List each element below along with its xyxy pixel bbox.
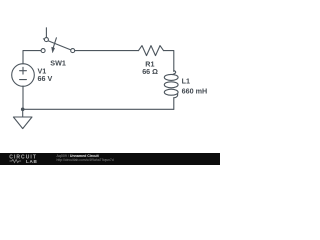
switch top throw terminal <box>44 38 48 42</box>
labels <box>38 58 208 95</box>
switch left throw terminal <box>41 49 45 53</box>
svg-text:L1: L1 <box>182 77 190 86</box>
junction dot <box>21 108 25 112</box>
bottom wire <box>23 108 174 110</box>
ground <box>13 109 32 128</box>
svg-text:SW1: SW1 <box>50 58 66 67</box>
svg-text:66 Ω: 66 Ω <box>142 67 158 76</box>
inductor L1 <box>164 71 178 98</box>
svg-text:660 mH: 660 mH <box>182 87 208 96</box>
wire stub above switch <box>45 28 47 38</box>
footer text line 1 <box>57 154 114 162</box>
wire resistor to inductor <box>164 51 174 72</box>
switch lever <box>43 39 70 50</box>
wire V1 top to switch <box>23 51 41 64</box>
voltage source V1 <box>12 64 35 87</box>
svg-text:http://circuitlab.com/c/4f9aha: http://circuitlab.com/c/4f9ahaT9qwn7d <box>57 158 114 162</box>
svg-text:66 V: 66 V <box>38 74 53 83</box>
footer logo CIRCUIT <box>9 154 37 163</box>
footer bar <box>0 153 220 165</box>
resistor R1 <box>139 46 164 56</box>
switch common terminal <box>71 49 75 53</box>
switch SW1 <box>41 28 75 53</box>
wire V1 bottom <box>22 86 24 109</box>
switch actuator arrow <box>53 38 56 49</box>
minus sign <box>20 79 27 81</box>
logo zigzag <box>10 159 22 162</box>
wire inductor to bottom <box>173 98 175 110</box>
plus sign <box>20 67 27 74</box>
svg-text:LAB: LAB <box>26 159 38 164</box>
wire switch to resistor <box>75 50 139 52</box>
